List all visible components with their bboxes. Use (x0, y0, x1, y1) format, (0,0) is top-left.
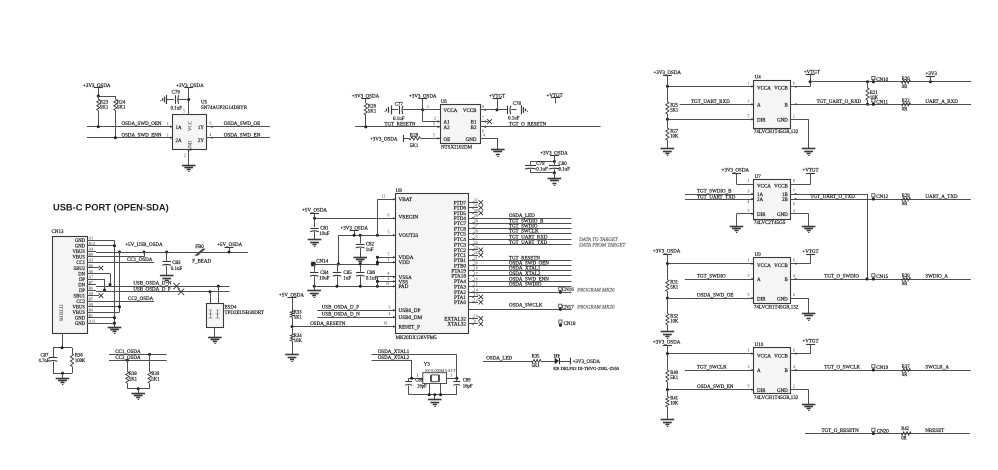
svg-text:OSDA_RESETN: OSDA_RESETN (310, 322, 345, 327)
svg-text:DN: DN (78, 272, 85, 277)
wire U7 GND (791, 209, 809, 226)
svg-text:NTSX2102DM: NTSX2102DM (441, 146, 473, 151)
resistor R23 5K1 (97, 99, 109, 127)
wire +5V_USB_OSDA (96, 243, 248, 253)
resistor R22 0R (902, 99, 911, 112)
svg-text:TPD2EUSB30DRT: TPD2EUSB30DRT (225, 311, 264, 316)
svg-text:VCCB: VCCB (774, 264, 788, 269)
wire OSDA_SWD_OEN (87, 122, 173, 128)
ground (R38/R39) (127, 387, 149, 399)
svg-text:5K1: 5K1 (532, 364, 541, 369)
wire TGT_SWDIO (U9 A) (685, 274, 754, 280)
svg-text:C76: C76 (172, 91, 181, 96)
ground (C83) (160, 276, 174, 283)
wire U4 DIR (666, 114, 754, 121)
svg-text:VBUS: VBUS (72, 306, 85, 311)
wire TGT_SWDIO_B (U8) (469, 219, 572, 224)
ground (ESD4) (208, 327, 222, 344)
ground (C79/C80) (531, 171, 562, 185)
svg-text:4: 4 (793, 274, 795, 278)
resistor R25 5K1 (666, 86, 679, 119)
wire TGT_UART_RXD (U4 A) (680, 99, 754, 105)
resistor R30 0R (902, 274, 911, 287)
ground (U10) (802, 405, 816, 411)
svg-text:VBAT: VBAT (399, 197, 413, 203)
svg-text:USB_OSDA_D_N: USB_OSDA_D_N (322, 313, 360, 318)
svg-text:C79: C79 (536, 162, 545, 167)
svg-text:21: 21 (474, 256, 478, 260)
svg-text:VCCA: VCCA (757, 264, 771, 269)
wire OSDA_XTAL1 (U8) (469, 267, 572, 272)
svg-text:74LVCH1T45GR,132: 74LVCH1T45GR,132 (754, 396, 799, 401)
svg-text:CN12: CN12 (876, 195, 888, 200)
resistor R35 5K1 (532, 355, 541, 369)
svg-text:GND: GND (777, 297, 788, 302)
svg-text:3: 3 (748, 274, 750, 278)
wire OSDA_XTAL2 (U8) (469, 272, 572, 277)
svg-text:GND: GND (466, 138, 477, 143)
svg-text:U10: U10 (755, 343, 764, 348)
svg-text:CN13: CN13 (52, 230, 64, 235)
ground (cap row) (307, 286, 321, 297)
svg-text:6: 6 (210, 122, 212, 126)
resistor R27 10K (666, 119, 679, 149)
svg-text:OSDA_SWCLK: OSDA_SWCLK (509, 304, 543, 309)
svg-text:SWCLK_A: SWCLK_A (925, 366, 949, 371)
svg-text:5K1: 5K1 (670, 376, 679, 381)
wire VOUT33 (338, 231, 395, 237)
svg-text:5: 5 (748, 114, 750, 118)
svg-text:5K1: 5K1 (368, 110, 377, 115)
power flag +3V3_OSDA (U5 pullups) (83, 84, 111, 96)
svg-text:MK20DX128VFM5: MK20DX128VFM5 (396, 336, 438, 341)
svg-text:OSDA_SWD_ENN: OSDA_SWD_ENN (122, 133, 162, 138)
svg-text:B4: B4 (89, 309, 94, 313)
svg-text:USB0_DP: USB0_DP (399, 308, 421, 314)
wire VOUT33 to CN14 rail (337, 235, 340, 265)
wire OSDA_SWD_ENN (U8) (469, 277, 572, 282)
wire TGT_SWDIO (U8) (469, 225, 572, 230)
svg-text:VCCB: VCCB (774, 185, 788, 190)
svg-text:2: 2 (793, 385, 795, 389)
svg-text:1: 1 (427, 105, 429, 109)
capacitor C81 10uF (310, 218, 330, 239)
svg-text:PAD: PAD (399, 284, 409, 290)
svg-text:VCCB: VCCB (774, 86, 788, 91)
wire VREGIN (313, 213, 396, 220)
svg-text:A: A (757, 369, 761, 374)
svg-text:R39: R39 (151, 372, 159, 377)
svg-text:5K1: 5K1 (410, 144, 419, 149)
svg-text:TGT_UART_TXD: TGT_UART_TXD (509, 241, 548, 246)
capacitor C76 0.1uF (160, 91, 190, 112)
buffer U9 74LVCH1T45GR box (754, 253, 799, 311)
svg-text:4.7nF: 4.7nF (39, 359, 50, 364)
resistor R38 5K1 (126, 359, 138, 389)
ground (C82) (353, 258, 367, 265)
power flag +3V3 (R20) (926, 72, 938, 82)
svg-text:2: 2 (388, 277, 390, 281)
svg-text:5: 5 (748, 385, 750, 389)
wire VCCA / A1 tie (421, 105, 440, 123)
svg-text:+VTGT: +VTGT (547, 94, 563, 99)
svg-text:0.1uF: 0.1uF (366, 277, 378, 282)
svg-text:C77: C77 (395, 102, 404, 107)
svg-text:C84: C84 (320, 271, 329, 276)
svg-text:CN18: CN18 (564, 322, 576, 327)
wire TGT_O_SWCLK (791, 365, 971, 371)
svg-text:DP: DP (79, 278, 85, 283)
svg-text:12: 12 (474, 298, 478, 302)
svg-text:VBUS: VBUS (72, 311, 85, 316)
svg-text:7: 7 (482, 117, 484, 121)
svg-text:TGT_RESETN: TGT_RESETN (384, 122, 415, 127)
connector CN15 (872, 274, 889, 281)
svg-text:DIR: DIR (757, 119, 766, 124)
wire U4 VCCA (666, 81, 754, 88)
wire OSDA_SWCLK (U8) (469, 304, 572, 310)
power flag +3V3_OSDA (U9) (653, 249, 681, 263)
capacitor C85 1uF (333, 264, 352, 286)
wire DN pair (CN13) (96, 274, 112, 287)
svg-text:19: 19 (384, 322, 388, 326)
svg-text:OSDA_SWD_EN: OSDA_SWD_EN (697, 385, 734, 390)
svg-text:4: 4 (210, 133, 212, 137)
ground (U6 GND pin4) (480, 133, 505, 156)
svg-text:CC1_OSDA: CC1_OSDA (115, 350, 141, 355)
svg-text:15: 15 (474, 283, 478, 287)
svg-text:R29: R29 (902, 194, 910, 199)
svg-text:C82: C82 (366, 243, 375, 248)
svg-text:ESD4: ESD4 (225, 306, 237, 311)
capacitor C87 4.7nF (39, 346, 73, 373)
wire VCCB +VTGT (480, 105, 507, 112)
svg-text:+3V3_OSDA: +3V3_OSDA (176, 84, 204, 89)
svg-text:USB-C PORT (OPEN-SDA): USB-C PORT (OPEN-SDA) (53, 202, 169, 212)
power flag +VTGT (U6) (489, 94, 505, 110)
svg-text:GND: GND (777, 389, 788, 394)
power flag +VTGT (U7) (791, 169, 819, 185)
power flag +3V3_OSDA (U4) (654, 71, 682, 86)
svg-text:2A: 2A (176, 139, 183, 144)
svg-text:B1: B1 (471, 121, 477, 126)
svg-text:10K: 10K (294, 339, 303, 344)
svg-text:27: 27 (474, 225, 478, 229)
svg-text:3: 3 (389, 305, 391, 309)
wire OSDA_XTAL2 (to Y3) (372, 356, 412, 379)
svg-text:+3V3_OSDA: +3V3_OSDA (722, 169, 750, 174)
svg-text:1: 1 (450, 373, 452, 377)
svg-text:FB0: FB0 (195, 245, 204, 250)
svg-text:U5: U5 (201, 101, 208, 106)
svg-text:7: 7 (388, 252, 390, 256)
svg-text:25: 25 (474, 235, 478, 239)
svg-text:1uF: 1uF (343, 277, 351, 282)
svg-text:+VTGT: +VTGT (802, 339, 818, 344)
wire USB_OSDA_D_N (MCU) (317, 312, 395, 318)
capacitor C82 1uF (356, 235, 375, 257)
svg-text:TGT_SWDIO_B: TGT_SWDIO_B (697, 190, 732, 195)
wire SHIELD (62, 333, 64, 348)
svg-text:1Y: 1Y (198, 126, 205, 131)
wire U7 1B to O_SWDIO (791, 189, 868, 279)
wire U9 VCCA (666, 259, 754, 266)
svg-text:8Z-8.000MAAJ-T: 8Z-8.000MAAJ-T (425, 368, 456, 373)
svg-text:10uF: 10uF (319, 277, 330, 282)
buffer U10 74LVCH1T45GR box (754, 343, 799, 401)
svg-text:SN74AUP2G14DRYR: SN74AUP2G14DRYR (201, 106, 248, 111)
capacitor C80 0.1uF (549, 162, 570, 173)
svg-text:14: 14 (474, 288, 478, 292)
svg-text:U4: U4 (755, 76, 762, 81)
U8 pin names (399, 197, 467, 330)
svg-text:2: 2 (184, 154, 186, 158)
svg-text:DATA FROM TARGET: DATA FROM TARGET (578, 244, 626, 249)
svg-text:3: 3 (748, 365, 750, 369)
svg-text:TGT_SWCLK: TGT_SWCLK (509, 230, 539, 235)
wire VDDA/VDD (376, 252, 396, 264)
svg-text:0.1uF: 0.1uF (171, 107, 183, 112)
power flag +5V_OSDA (VREGIN) (302, 209, 327, 219)
svg-text:VOUT33: VOUT33 (399, 233, 419, 239)
svg-text:DIR: DIR (757, 389, 766, 394)
ferrite bead FB0 F_BEAD (192, 245, 211, 264)
power flag +VTGT (U4) (804, 70, 820, 81)
svg-text:C86: C86 (367, 271, 376, 276)
svg-text:8: 8 (793, 179, 795, 183)
svg-text:0R: 0R (902, 202, 908, 207)
capacitor C77 0.1uF (384, 102, 422, 121)
ground (R41) (661, 420, 675, 427)
svg-text:16pF: 16pF (463, 384, 473, 389)
svg-text:PROGRAM MK20: PROGRAM MK20 (576, 306, 615, 311)
svg-text:GND: GND (189, 140, 194, 151)
svg-text:100K: 100K (75, 359, 86, 364)
svg-text:2Y: 2Y (198, 139, 205, 144)
svg-text:TGT_O_SWCLK: TGT_O_SWCLK (824, 366, 860, 371)
svg-text:1: 1 (748, 81, 750, 85)
svg-text:4: 4 (793, 209, 795, 213)
mcu U8 MK20DX128VFM5 box (396, 189, 469, 341)
CN13 pin stubs (87, 241, 96, 324)
wire OSDA_SWDIO (U8) (469, 283, 572, 288)
svg-text:C80: C80 (558, 162, 567, 167)
svg-text:5K1: 5K1 (129, 377, 138, 382)
svg-text:5: 5 (388, 231, 390, 235)
wire USB_OSDA_D_P (MCU) (317, 305, 395, 311)
svg-text:74LVCH1T45GR,132: 74LVCH1T45GR,132 (754, 306, 799, 311)
svg-text:0R: 0R (902, 85, 908, 90)
power flag +3V3_OSDA (C79/C80) (540, 152, 568, 162)
svg-text:2: 2 (793, 293, 795, 297)
svg-text:R30: R30 (902, 274, 910, 279)
svg-text:7: 7 (793, 189, 795, 193)
svg-text:1A: 1A (176, 126, 183, 131)
note DATA TO TARGET (578, 238, 619, 243)
svg-text:4: 4 (389, 312, 391, 316)
svg-text:TGT_UART_O_RXD: TGT_UART_O_RXD (817, 100, 862, 105)
svg-text:+3V3_OSDA: +3V3_OSDA (370, 137, 398, 142)
svg-text:0R: 0R (901, 437, 907, 442)
svg-text:OSDA_SWD_EN: OSDA_SWD_EN (224, 133, 261, 138)
resistor R34 10K (290, 327, 302, 355)
power flag +3V3_OSDA (U7) (722, 169, 754, 185)
op-amp U5 SN74AUP2G14DRYR box (173, 101, 248, 150)
svg-text:3: 3 (416, 373, 418, 377)
buffer U7 74LVC2T45GS box (754, 175, 791, 226)
svg-text:0.1uF: 0.1uF (558, 167, 570, 172)
wire OSDA_RESETN (291, 322, 396, 329)
svg-text:U7: U7 (755, 175, 762, 180)
resistor R26 5K1 (364, 103, 377, 127)
connector CN19 (872, 365, 889, 372)
svg-text:VREGIN: VREGIN (399, 215, 419, 221)
wire DP pair (CN13) (96, 279, 106, 292)
power flag +3V3_OSDA (R28, rotated) (370, 135, 409, 143)
svg-text:10K: 10K (670, 402, 679, 407)
svg-text:1: 1 (388, 258, 390, 262)
resistor R36 100K (70, 348, 86, 374)
svg-text:A: A (757, 104, 761, 109)
svg-text:2: 2 (434, 117, 436, 121)
title USB-C PORT (OPEN-SDA) (53, 202, 169, 212)
svg-text:PTA0: PTA0 (454, 300, 466, 306)
wire OSDA_SWD_ENN (87, 133, 173, 139)
capacitor C88 16pF (405, 378, 427, 395)
svg-text:OSDA_SWD_OE: OSDA_SWD_OE (224, 122, 260, 127)
no-connect B1 (480, 117, 492, 124)
svg-text:USB_OSDA_D_P: USB_OSDA_D_P (322, 306, 359, 311)
svg-text:3: 3 (433, 122, 435, 126)
value KB DELPS2 DI-THVG-23RL-Z555 (553, 366, 620, 371)
svg-text:R35: R35 (532, 355, 540, 360)
svg-text:CN10: CN10 (876, 78, 888, 83)
resistor R21 10K (866, 82, 879, 106)
svg-text:VCCA: VCCA (444, 109, 458, 114)
wire CC2_OSDA (pulldown) (109, 356, 167, 361)
svg-text:OSDA_XTAL1: OSDA_XTAL1 (378, 350, 410, 355)
capacitor C83 0.1uF (162, 251, 182, 276)
svg-text:32: 32 (474, 199, 478, 203)
svg-text:CC1: CC1 (76, 261, 85, 266)
svg-text:DATA TO TARGET: DATA TO TARGET (578, 238, 619, 243)
ground (R32) (661, 332, 675, 339)
connector CN20 (872, 428, 889, 435)
svg-text:+5V_USB_OSDA: +5V_USB_OSDA (125, 243, 163, 248)
svg-text:C88: C88 (415, 379, 423, 384)
svg-text:DIR: DIR (757, 213, 766, 218)
connector CN18 (559, 320, 576, 327)
wire U10 VCCA (666, 349, 754, 356)
wire TGT_SWCLK (U10 A) (685, 365, 754, 371)
svg-text:+VTGT: +VTGT (802, 169, 818, 174)
svg-text:SBU2: SBU2 (74, 267, 86, 272)
svg-text:PROGRAM MK20: PROGRAM MK20 (576, 288, 615, 293)
svg-text:R36: R36 (75, 354, 83, 359)
wire +VTGT rail (U4) (810, 80, 971, 83)
wire TGT_O_RESETN (U6 B2) (480, 122, 601, 133)
svg-text:GND: GND (777, 213, 788, 218)
op-amp U6 NTSX2102DM box (441, 100, 481, 150)
resistor R39 5K1 (148, 353, 160, 389)
wire U7 DIR to ground (737, 209, 754, 226)
svg-text:TGT_UART_O_TXD: TGT_UART_O_TXD (810, 195, 855, 200)
svg-text:C78: C78 (513, 102, 522, 107)
svg-text:A: A (757, 278, 761, 283)
svg-text:C87: C87 (41, 354, 49, 359)
svg-text:6: 6 (793, 259, 795, 263)
svg-text:5K1: 5K1 (294, 316, 303, 321)
svg-text:5K1: 5K1 (117, 105, 126, 110)
wire OSDA_SWD_OE (207, 122, 270, 128)
svg-text:VCCB: VCCB (463, 109, 477, 114)
svg-text:5: 5 (748, 293, 750, 297)
svg-text:UART_A_TXD: UART_A_TXD (925, 195, 958, 200)
wire VSSA/VSS (376, 272, 396, 286)
diode D1 LED (541, 354, 560, 364)
svg-text:2: 2 (793, 114, 795, 118)
svg-text:TGT_SWDIO: TGT_SWDIO (697, 275, 726, 280)
svg-text:10uF: 10uF (319, 232, 330, 237)
svg-text:16pF: 16pF (417, 384, 427, 389)
ground (U9) (802, 314, 816, 321)
wire OSDA_LED (U8) (469, 214, 572, 219)
U5 pin names (176, 110, 205, 158)
svg-text:CN11: CN11 (876, 100, 888, 105)
ground (U7) (802, 227, 816, 233)
svg-text:U6: U6 (441, 100, 448, 105)
ground (shield RC) (53, 372, 72, 385)
wire GND bus (CN13) (96, 240, 116, 327)
svg-text:29: 29 (474, 214, 478, 218)
connector CN14 (311, 259, 328, 266)
svg-text:Y3: Y3 (424, 362, 431, 367)
svg-text:VDD: VDD (399, 260, 410, 266)
svg-text:C81: C81 (320, 226, 329, 231)
svg-text:16: 16 (474, 277, 478, 281)
svg-text:C89: C89 (463, 379, 471, 384)
svg-text:F_BEAD: F_BEAD (192, 259, 211, 264)
note DATA FROM TARGET (578, 244, 626, 249)
svg-text:KB DELPS2 DI-THVG-23RL-Z555: KB DELPS2 DI-THVG-23RL-Z555 (553, 366, 620, 371)
connector CN11 (872, 99, 889, 106)
resistor R28 5K1 (409, 133, 440, 149)
power flag +3V3_OSDA (VOUT33) (340, 227, 368, 236)
wire VBAT tie (377, 194, 395, 235)
svg-text:B6: B6 (89, 286, 94, 290)
svg-text:R38: R38 (129, 372, 137, 377)
power flag +3V3_OSDA (U10) (653, 341, 681, 355)
svg-text:5: 5 (433, 133, 435, 137)
svg-text:TGT_UART_TXD: TGT_UART_TXD (697, 195, 736, 200)
capacitor C79 0.1uF (525, 160, 556, 173)
svg-text:+3V3_OSDA: +3V3_OSDA (653, 249, 681, 254)
svg-text:TGT_O_RESETN: TGT_O_RESETN (822, 429, 860, 434)
svg-text:U9: U9 (755, 253, 762, 258)
ground (U5) (182, 149, 196, 172)
svg-text:4: 4 (483, 133, 485, 137)
svg-text:B2: B2 (471, 126, 477, 131)
svg-text:0R: 0R (902, 282, 908, 287)
svg-text:RESET_P: RESET_P (399, 325, 420, 331)
resistor R29 0R (902, 194, 911, 207)
resistor R41 10K (666, 390, 679, 420)
svg-text:A2: A2 (444, 126, 451, 131)
svg-text:CN17: CN17 (562, 305, 574, 310)
wire U9 GND (791, 293, 809, 313)
svg-text:5K1: 5K1 (670, 286, 679, 291)
svg-text:TGT_O_RESETN: TGT_O_RESETN (509, 122, 547, 127)
